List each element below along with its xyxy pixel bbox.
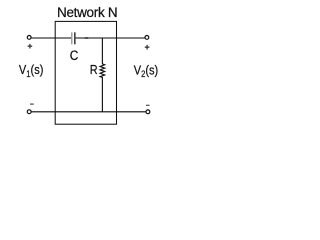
svg-text:C: C: [70, 47, 79, 63]
svg-text:V2(s): V2(s): [134, 62, 158, 79]
svg-text:Network N: Network N: [57, 5, 117, 20]
svg-text:R: R: [90, 62, 98, 77]
svg-text:V1(s): V1(s): [19, 62, 43, 79]
